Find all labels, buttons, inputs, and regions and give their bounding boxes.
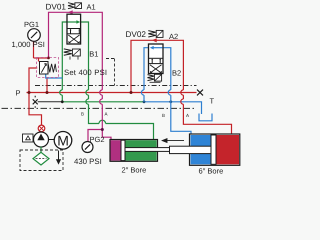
svg-text:B2: B2 bbox=[172, 69, 181, 78]
valve DV01 bottom solenoid box bbox=[72, 49, 80, 56]
valve DV02 crossed arrows bottom section bbox=[150, 65, 162, 73]
filter F1 bbox=[33, 152, 49, 165]
wire blue relief outlet elbow bbox=[46, 74, 63, 78]
svg-text:B1: B1 bbox=[89, 50, 98, 59]
manifold dashed edge segment top bbox=[106, 59, 115, 86]
valve DV02 body bbox=[149, 44, 164, 74]
wire red P-line bbox=[27, 92, 197, 94]
arrow on A2 line pointing left bbox=[152, 38, 157, 42]
svg-text:A1: A1 bbox=[87, 3, 96, 12]
svg-text:2″ Bore: 2″ Bore bbox=[122, 166, 147, 175]
reservoir dashed box bbox=[20, 150, 63, 171]
junction dot drain at blue right bbox=[169, 100, 172, 103]
relief valve RV body bbox=[40, 62, 49, 75]
wire blue B2 loop right side down to 6in cylinder rod port bbox=[163, 48, 191, 135]
wire red PG1 stem bbox=[33, 40, 35, 58]
wire magenta branch to PG2 bbox=[88, 130, 102, 142]
svg-text:PG1: PG1 bbox=[24, 20, 39, 29]
valve DV02 bottom solenoid box bbox=[154, 74, 161, 81]
wire magenta branch to 2in cylinder cap port bbox=[102, 130, 111, 140]
svg-text:DV01: DV01 bbox=[46, 3, 67, 12]
shaft bbox=[48, 139, 55, 141]
plug X at end of P-line bbox=[197, 90, 203, 96]
valve DV01 body bbox=[67, 14, 81, 44]
svg-text:1,000 PSI: 1,000 PSI bbox=[12, 40, 45, 49]
wire tank return line black segment from plug bbox=[38, 101, 63, 103]
relief valve RV arrow bbox=[41, 64, 46, 73]
valve DV02 internal blue flow line with left arrow bbox=[154, 47, 163, 49]
plug X on drain stub bbox=[33, 96, 38, 108]
tank T symbol bbox=[199, 114, 212, 121]
cylinder CYL2 6in bore fills bbox=[191, 135, 212, 164]
gauge PG2 bbox=[82, 142, 93, 153]
junction dot P at DV02 riser bbox=[130, 91, 133, 94]
electric motor M bbox=[54, 132, 72, 150]
relief valve RV dashed pilot box bbox=[37, 58, 59, 78]
cylinder CYL2 outline bbox=[190, 134, 240, 165]
junction dot A1 branch bbox=[101, 128, 104, 131]
gauge PG1 bbox=[28, 29, 41, 42]
svg-text:A2: A2 bbox=[169, 32, 178, 41]
valve DV02 center blocked port stubs bbox=[152, 60, 160, 64]
svg-text:B: B bbox=[81, 112, 84, 117]
valve DV01 crossed arrows bottom section bbox=[68, 35, 79, 43]
cylinder CYL1 outline bbox=[110, 140, 158, 162]
junction dot red-magenta header bbox=[47, 57, 50, 60]
wire blue B2 loop left side of DV02 bbox=[141, 48, 148, 102]
valve DV01 bottom port stubs bbox=[70, 56, 78, 59]
manifold dash-dot boundary lower bbox=[2, 107, 197, 109]
svg-text:6″ Bore: 6″ Bore bbox=[199, 167, 224, 176]
svg-text:A: A bbox=[105, 112, 108, 117]
svg-text:430 PSI: 430 PSI bbox=[74, 157, 102, 166]
arrow on A1 line pointing left bbox=[68, 10, 73, 14]
valve DV01 top solenoid box bbox=[75, 3, 82, 9]
pump compensator box bbox=[23, 134, 34, 142]
thick ram rod into 6in cylinder bbox=[170, 146, 212, 153]
valve DV02 bottom spring bbox=[148, 75, 155, 81]
cylinder CYL1 piston bbox=[121, 140, 125, 160]
wire red pump riser and main pressure path bbox=[29, 68, 42, 133]
pump P1 bbox=[34, 132, 49, 147]
cylinder CYL2 piston bbox=[211, 135, 216, 164]
junction dot drain at blue left bbox=[143, 100, 146, 103]
valve DV01 center blocked port stubs bbox=[71, 30, 80, 34]
valve DV02 head underline bbox=[150, 81, 161, 83]
cylinder CYL1 2in bore fills bbox=[111, 140, 122, 160]
svg-text:PG2: PG2 bbox=[90, 135, 105, 144]
wire red A2 line from DV02 supply riser across valve to 6in cylinder cap port bbox=[131, 40, 232, 134]
rod travel arrow bbox=[162, 139, 184, 143]
wire red drop into relief valve bbox=[38, 58, 40, 62]
valve DV01 internal green flow line with right arrow bbox=[68, 21, 77, 23]
wire green pump suction bbox=[40, 147, 42, 153]
wire green B1 loop around DV01 left side down to drain junction bbox=[60, 22, 67, 102]
svg-text:T: T bbox=[210, 97, 215, 106]
svg-text:A: A bbox=[186, 113, 189, 118]
junction dot P at relief stub bbox=[46, 91, 49, 94]
valve DV02 top spring bbox=[148, 31, 155, 37]
return line arrow into tank bbox=[58, 151, 60, 160]
wire tank return line blue segment to tank bbox=[144, 102, 202, 114]
wire red stub relief to P-line bbox=[46, 78, 48, 93]
junction dot P at riser bbox=[28, 91, 31, 94]
svg-text:DV02: DV02 bbox=[126, 30, 147, 39]
test point circle with X on pump outlet bbox=[38, 125, 45, 132]
valve DV01 bottom spring bbox=[64, 49, 72, 55]
wire red header at y58 bbox=[34, 57, 49, 59]
svg-text:P: P bbox=[16, 89, 21, 98]
junction dot drain at green bbox=[61, 100, 64, 103]
relief valve RV spring bbox=[48, 64, 56, 73]
wire green B1 loop right side down to 2in cylinder rod port bbox=[81, 22, 154, 140]
svg-text:Set 400 PSI: Set 400 PSI bbox=[64, 68, 107, 77]
valve DV01 top spring bbox=[68, 3, 74, 9]
svg-text:B: B bbox=[162, 113, 165, 118]
thin rod from 2in cylinder piston bbox=[125, 148, 170, 152]
valve DV02 top solenoid box bbox=[156, 30, 163, 37]
wire magenta A1 line from red junction across valve DV01 down to cylinder bbox=[49, 12, 103, 129]
wire tank return line green segment bbox=[62, 101, 144, 103]
svg-text:M: M bbox=[57, 133, 69, 149]
manifold dash-dot boundary upper bbox=[35, 85, 197, 87]
